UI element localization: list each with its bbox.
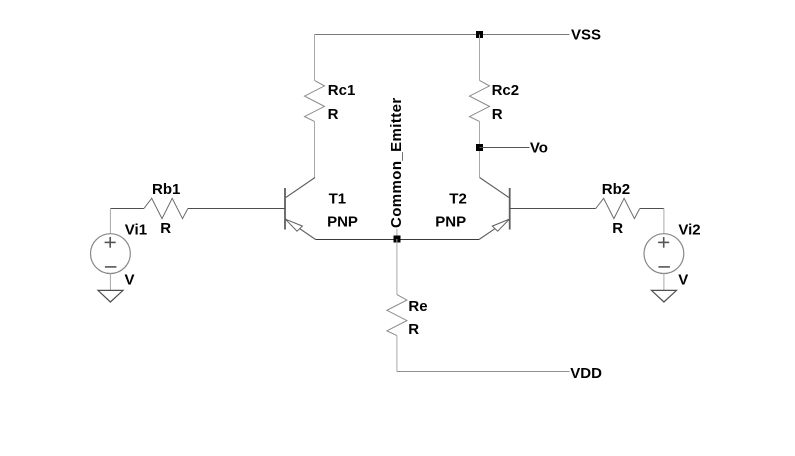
transistor T2	[479, 178, 510, 240]
wire Rc2 bottom to Vo node	[479, 121, 481, 177]
wire T2 base to Rb2	[510, 208, 596, 210]
resistor Rc2	[470, 80, 490, 121]
svg-text:PNP: PNP	[327, 214, 358, 231]
voltage source Vi1	[91, 234, 131, 274]
transistor T1	[285, 178, 316, 240]
wire Vi2 bottom	[663, 274, 665, 291]
svg-text:V: V	[125, 272, 135, 289]
wire Vi1 top	[109, 209, 111, 234]
svg-text:Rb2: Rb2	[602, 181, 630, 198]
junction emitter node	[394, 236, 401, 243]
svg-text:R: R	[160, 220, 171, 237]
wire VSS top rail	[315, 34, 570, 36]
wire Re bottom	[396, 336, 398, 372]
svg-text:Re: Re	[408, 298, 427, 315]
ground left	[98, 290, 123, 302]
wire Vo stub	[480, 147, 530, 149]
svg-text:VSS: VSS	[571, 26, 601, 43]
wire Rc1 bottom to T1 collector	[314, 121, 316, 177]
svg-text:PNP: PNP	[435, 214, 466, 231]
svg-text:Rb1: Rb1	[152, 181, 180, 198]
svg-text:R: R	[328, 106, 339, 123]
wire Rb1 to T1 base	[188, 208, 285, 210]
svg-text:Vi2: Vi2	[678, 222, 700, 239]
junction Vo node	[476, 144, 483, 151]
wire Common_Emitter stub	[396, 229, 398, 239]
resistor Rb2	[596, 198, 640, 218]
wire Vi2 top	[663, 209, 665, 234]
svg-text:T1: T1	[329, 191, 347, 208]
svg-text:R: R	[612, 220, 623, 237]
wire Rc2 top	[479, 35, 481, 81]
svg-text:V: V	[678, 272, 688, 289]
svg-text:Rc2: Rc2	[492, 82, 520, 99]
wire Rc1 top	[314, 35, 316, 81]
svg-text:Common_Emitter: Common_Emitter	[388, 97, 405, 228]
resistor Rc1	[305, 80, 325, 121]
wire emitter bus	[316, 239, 479, 241]
resistor Re	[387, 295, 407, 336]
ground right	[652, 290, 677, 302]
wire VDD rail	[397, 371, 570, 373]
svg-text:T2: T2	[449, 190, 467, 207]
wire Rb2 to Vi2	[640, 208, 664, 210]
resistor Rb1	[144, 198, 188, 218]
svg-text:VDD: VDD	[570, 365, 602, 382]
junction top-rail/Rc2	[476, 31, 483, 38]
voltage source Vi2	[644, 234, 684, 274]
svg-text:Vo: Vo	[530, 139, 548, 156]
svg-text:R: R	[492, 106, 503, 123]
wire Vi1 bottom	[109, 274, 111, 291]
wire Vi1 to Rb1	[110, 208, 143, 210]
wire emitter node to Re	[396, 239, 398, 295]
svg-text:Rc1: Rc1	[328, 82, 356, 99]
svg-text:Vi1: Vi1	[125, 221, 147, 238]
svg-text:R: R	[408, 321, 419, 338]
